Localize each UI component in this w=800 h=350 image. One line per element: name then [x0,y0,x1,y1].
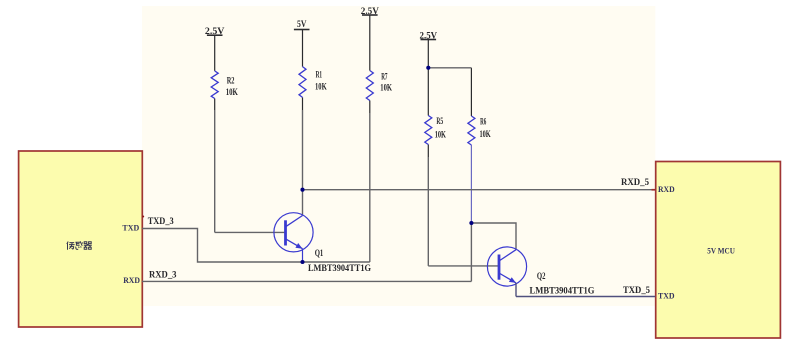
svg-text:R6: R6 [480,116,486,126]
svg-text:LMBT3904TT1G: LMBT3904TT1G [308,263,371,273]
svg-text:RXD_3: RXD_3 [149,270,177,280]
svg-text:TXD: TXD [658,291,675,301]
svg-text:R7: R7 [381,71,388,81]
svg-text:RXD: RXD [658,184,675,194]
svg-text:TXD: TXD [122,223,139,233]
svg-text:10K: 10K [226,87,238,97]
svg-text:10K: 10K [380,83,392,93]
svg-text:Q1: Q1 [315,248,324,258]
svg-text:LMBT3904TT1G: LMBT3904TT1G [530,285,595,295]
svg-text:RXD_5: RXD_5 [621,177,649,187]
svg-text:5V MCU: 5V MCU [707,245,735,255]
svg-text:10K: 10K [435,129,446,139]
svg-text:TXD_5: TXD_5 [623,285,650,295]
svg-text:10K: 10K [480,129,491,139]
svg-text:TXD_3: TXD_3 [148,216,174,226]
svg-text:5V: 5V [297,20,307,30]
svg-text:R5: R5 [436,116,443,126]
svg-text:RXD: RXD [123,275,140,285]
svg-text:Q2: Q2 [537,271,546,281]
svg-text:R1: R1 [316,70,323,80]
svg-text:R2: R2 [227,75,235,85]
svg-text:10K: 10K [315,81,327,91]
